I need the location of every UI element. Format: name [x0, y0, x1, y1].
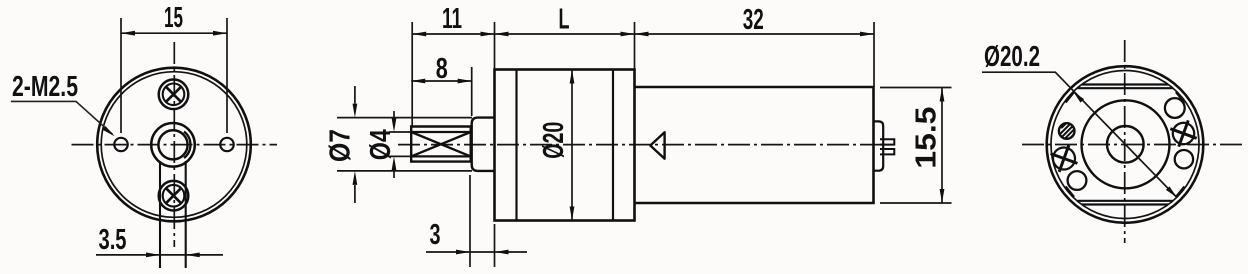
crimp corner ticks — [1066, 92, 1185, 197]
left mounting hole — [114, 138, 127, 151]
O7 extension lines — [337, 118, 472, 171]
rear hole lower-left — [1068, 171, 1087, 190]
svg-text:Ø4: Ø4 — [365, 129, 397, 160]
O7 dim arrows — [354, 86, 356, 203]
dim 32 line — [635, 33, 875, 35]
gearbox body — [495, 70, 635, 221]
svg-text:11: 11 — [442, 3, 462, 35]
svg-text:Ø20.2: Ø20.2 — [984, 41, 1040, 73]
gearbox front plate line — [515, 70, 517, 221]
motor end boss — [874, 121, 884, 170]
O4 extension lines — [389, 132, 412, 156]
right mounting hole — [220, 138, 233, 151]
dim O20 line — [571, 70, 573, 221]
slot line left — [159, 161, 161, 268]
dim L arrows — [495, 32, 635, 37]
O4 dim arrows — [393, 111, 395, 178]
dim O20.2 arrowheads — [1073, 92, 1177, 198]
bearing boss side — [472, 118, 495, 171]
worm gear hatch X — [411, 132, 471, 156]
dim 32 arrows — [635, 32, 875, 37]
dim 11 line — [412, 33, 494, 35]
bearing boss circle — [151, 123, 195, 167]
label 2-M2.5 leader — [11, 101, 113, 134]
top screw — [159, 80, 189, 110]
front view inner circle — [101, 72, 247, 218]
rear view horizontal centerline — [1022, 144, 1245, 146]
dim 8 extension line — [471, 67, 473, 116]
front view vertical centerline — [173, 42, 175, 247]
dim 3.5 line — [96, 254, 223, 256]
motor terminals — [880, 139, 894, 154]
dim 15.5 arrows — [940, 88, 945, 204]
motor body — [635, 87, 874, 203]
front view outer circle — [97, 68, 251, 222]
motor vent triangle — [650, 132, 664, 158]
rear view vertical centerline — [1124, 40, 1126, 243]
rear hole upper-right — [1165, 98, 1185, 118]
svg-text:Ø7: Ø7 — [325, 129, 357, 162]
dim 15 extension lines — [121, 18, 227, 133]
svg-text:3: 3 — [430, 219, 441, 251]
svg-text:8: 8 — [436, 53, 448, 85]
svg-text:2-M2.5: 2-M2.5 — [12, 71, 78, 103]
rear slotted screw upper-left — [1059, 123, 1075, 139]
svg-text:Ø20: Ø20 — [538, 122, 570, 159]
side view centerline — [398, 144, 884, 146]
rear hole lower-right — [1175, 150, 1193, 168]
rear screw right — [1166, 116, 1202, 152]
svg-text:32: 32 — [743, 4, 764, 36]
rear shaft hole — [1107, 126, 1144, 163]
svg-text:3.5: 3.5 — [99, 224, 127, 256]
dim 3 arrows — [456, 250, 509, 255]
dim L line — [495, 33, 635, 35]
dim 15.5 extension lines — [880, 88, 952, 204]
dim 3 line — [426, 251, 527, 253]
top crimp chords — [1078, 85, 1173, 89]
dim 15 arrows — [121, 31, 227, 36]
dim O20 arrows — [570, 70, 575, 221]
rear screw lower-left — [1046, 140, 1083, 177]
bottom screw — [159, 181, 189, 211]
worm gear root lines — [411, 132, 471, 156]
dim 3.5 arrows — [146, 253, 200, 258]
dim 8 arrows — [411, 79, 472, 84]
dim 8 line — [411, 80, 472, 82]
slot line right — [185, 161, 187, 268]
svg-text:15: 15 — [164, 2, 183, 34]
shaft circle — [158, 130, 187, 159]
top dims extension lines — [412, 22, 874, 126]
worm gear outline — [411, 127, 471, 162]
rear inner ring — [1051, 71, 1199, 219]
label 2-M2.5 arrowhead — [102, 126, 115, 136]
dim 15.5 line — [941, 88, 943, 204]
dim O20.2 leader — [982, 72, 1177, 197]
shaft D-flat arc — [184, 132, 190, 159]
dim 15 line — [121, 32, 227, 34]
svg-text:L: L — [559, 4, 570, 36]
rear outer circle — [1047, 66, 1204, 223]
rear gear circle — [1082, 100, 1170, 188]
front view horizontal centerline — [72, 144, 278, 146]
svg-text:15.5: 15.5 — [911, 107, 943, 169]
dim 3 extension lines — [470, 175, 495, 267]
gearbox rear plate line — [612, 70, 614, 221]
dim 11 arrows — [412, 32, 494, 37]
bottom crimp chords — [1078, 201, 1173, 205]
